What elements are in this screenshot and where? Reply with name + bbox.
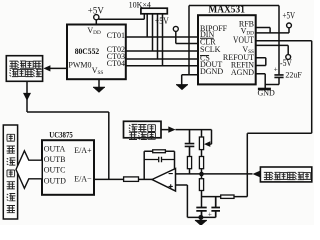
svg-text:+: + bbox=[208, 210, 212, 218]
svg-text:+5V: +5V bbox=[88, 5, 104, 15]
svg-text:AGND: AGND bbox=[231, 68, 254, 77]
svg-text:OUTD: OUTD bbox=[44, 176, 66, 185]
svg-text:CT01: CT01 bbox=[107, 31, 125, 40]
svg-text:OUTB: OUTB bbox=[44, 155, 66, 164]
svg-text:10K×4: 10K×4 bbox=[129, 1, 151, 10]
svg-text:80C552: 80C552 bbox=[75, 46, 100, 56]
svg-text:DGND: DGND bbox=[200, 67, 223, 76]
svg-text:MAX531: MAX531 bbox=[208, 4, 245, 15]
svg-text:+5V: +5V bbox=[155, 16, 169, 26]
svg-text:OUTA: OUTA bbox=[44, 145, 66, 154]
svg-text:UC3875: UC3875 bbox=[49, 130, 73, 140]
svg-text:22uF: 22uF bbox=[285, 70, 302, 79]
svg-text:OUTC: OUTC bbox=[44, 166, 66, 175]
svg-text:+: + bbox=[274, 65, 278, 74]
svg-text:-5V: -5V bbox=[280, 58, 292, 68]
svg-text:VOUT: VOUT bbox=[233, 35, 254, 45]
svg-text:+5V: +5V bbox=[283, 11, 296, 21]
svg-text:CT04: CT04 bbox=[107, 59, 125, 68]
svg-text:PWM0: PWM0 bbox=[68, 61, 91, 70]
svg-text:E/A+: E/A+ bbox=[74, 146, 92, 155]
svg-text:E/A−: E/A− bbox=[74, 175, 92, 184]
svg-text:GND: GND bbox=[258, 88, 276, 97]
